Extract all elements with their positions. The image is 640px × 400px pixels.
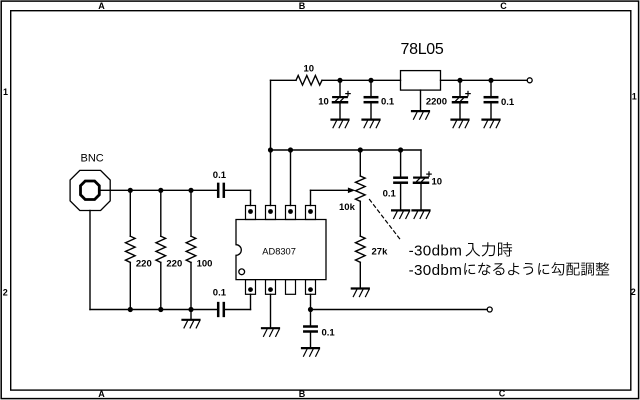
pin 2 (bottom row)	[266, 280, 276, 295]
svg-text:B: B	[299, 389, 306, 399]
node junction R1 bottom	[128, 307, 133, 312]
svg-text:-30dbm: -30dbm	[409, 243, 463, 260]
capacitor 0.1 (output filter)	[490, 80, 492, 96]
potentiometer 10k	[359, 150, 361, 176]
wire coupling cap to IC input pin	[225, 189, 250, 191]
node junction at 10uF cap	[337, 78, 342, 83]
node junction 0.1 bypass	[398, 147, 403, 152]
capacitor 0.1 input coupling bottom	[217, 303, 220, 316]
ground	[352, 287, 369, 289]
node junction R2 bottom	[158, 307, 163, 312]
resistor 220 (R1)	[129, 190, 131, 236]
capacitor 10 electrolytic (vcc bypass)	[420, 150, 422, 177]
svg-text:0.1: 0.1	[213, 288, 227, 299]
ground	[363, 118, 380, 120]
connector BNC	[70, 170, 110, 210]
op-amp U1 AD8307 body	[236, 220, 326, 280]
wire IC vcc rail	[271, 149, 422, 151]
svg-text:C: C	[499, 389, 506, 399]
wire output rail	[311, 309, 488, 311]
svg-text:A: A	[98, 389, 105, 399]
svg-text:1: 1	[3, 87, 8, 97]
ground	[413, 209, 430, 211]
node junction R3 top	[188, 188, 193, 193]
terminal output	[487, 307, 492, 312]
pin 5 (top row)	[306, 206, 316, 220]
capacitor 2200 electrolytic (output filter)	[459, 80, 461, 96]
ground	[452, 118, 469, 120]
ground	[183, 319, 200, 321]
ground	[412, 110, 429, 112]
wire vcc feed down to IC rail	[270, 80, 272, 205]
svg-text:C: C	[500, 1, 507, 11]
ground	[392, 209, 409, 211]
wire IC output pin down	[310, 294, 312, 325]
svg-text:A: A	[98, 1, 105, 11]
svg-text:BNC: BNC	[81, 153, 104, 165]
svg-text:10: 10	[318, 97, 329, 108]
pin 4 (bottom row)	[306, 280, 316, 295]
node junction at 0.1 cap	[368, 78, 373, 83]
node junction R3 bottom / ground tap	[188, 307, 193, 312]
svg-text:-30dbm: -30dbm	[409, 262, 463, 279]
pin 7 (top row)	[266, 206, 276, 220]
svg-text:10: 10	[432, 176, 443, 187]
wire bottom cap to IC pin	[225, 309, 250, 311]
node junction pin wire	[288, 147, 293, 152]
svg-text:1: 1	[632, 92, 637, 102]
resistor 220 (R2)	[160, 190, 162, 236]
wire resistor to regulator input	[322, 79, 401, 81]
svg-text:27k: 27k	[372, 246, 389, 257]
node junction R2 top	[158, 188, 163, 193]
wire supply rail left segment	[271, 79, 297, 81]
svg-text:0.1: 0.1	[383, 189, 397, 200]
ground	[483, 118, 500, 120]
wire wiper from IC pin	[310, 190, 312, 205]
wire rail to IC pin	[290, 150, 292, 206]
capacitor 0.1 (vcc bypass)	[400, 150, 402, 177]
capacitor 0.1 output filter	[304, 325, 316, 328]
svg-text:220: 220	[136, 258, 152, 269]
wire IC pin2 bottom to ground	[270, 294, 272, 327]
svg-text:78L05: 78L05	[401, 41, 444, 58]
node junction R1 top	[128, 188, 133, 193]
regulator U2 78L05	[401, 71, 441, 91]
wire regulator output rail	[441, 79, 528, 81]
pin 1 (bottom row)	[246, 280, 256, 295]
resistor 10	[296, 76, 322, 86]
ground	[262, 327, 279, 329]
wire bottom return rail	[90, 309, 217, 311]
wire regulator ground pin	[420, 90, 422, 110]
node junction vcc rail	[268, 147, 273, 152]
svg-text:10: 10	[304, 63, 315, 74]
ground	[302, 347, 319, 349]
resistor 27k	[356, 236, 366, 262]
capacitor 0.1 input coupling top	[217, 184, 220, 197]
svg-text:0.1: 0.1	[501, 97, 515, 108]
svg-text:2200: 2200	[426, 97, 447, 108]
svg-text:100: 100	[197, 258, 213, 269]
svg-text:0.1: 0.1	[213, 170, 227, 181]
pin 3 (bottom row)	[286, 280, 296, 295]
capacitor 0.1 (input filter)	[370, 80, 372, 96]
svg-text:2: 2	[3, 287, 8, 297]
pin 6 (top row)	[286, 206, 296, 220]
capacitor 10 electrolytic (input filter)	[339, 80, 341, 96]
svg-text:0.1: 0.1	[322, 328, 336, 339]
node junction at output 0.1 cap	[488, 78, 493, 83]
annotation leader dashed	[370, 200, 402, 241]
node junction pot top	[358, 147, 363, 152]
wire BNC center conductor	[99, 189, 217, 191]
svg-text:220: 220	[166, 258, 182, 269]
svg-text:0.1: 0.1	[381, 97, 395, 108]
ground	[332, 118, 349, 120]
wiper arrow	[348, 188, 355, 194]
svg-text:AD8307: AD8307	[262, 246, 296, 256]
resistor 100 (R3)	[190, 190, 192, 236]
node junction at 2200 cap	[457, 78, 462, 83]
svg-text:2: 2	[631, 287, 636, 297]
svg-text:10k: 10k	[339, 202, 356, 213]
node junction output	[308, 307, 313, 312]
terminal +5V output	[527, 78, 532, 83]
pin 8 (top row)	[246, 206, 256, 220]
svg-text:B: B	[299, 1, 306, 11]
wire BNC shell down	[89, 211, 91, 310]
